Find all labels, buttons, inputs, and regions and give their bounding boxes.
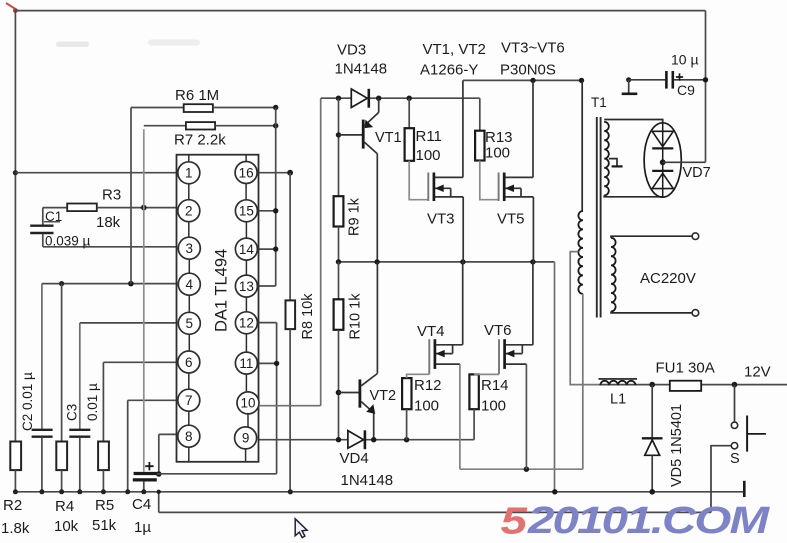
red scribble mark top-left (6, 3, 17, 10)
capacitor C3 (79, 323, 81, 429)
IC pin circles (178, 162, 259, 449)
svg-text:12V: 12V (744, 364, 771, 381)
resistor R13 (479, 98, 481, 131)
diode VD4 1N4148 (348, 431, 364, 449)
svg-text:T1: T1 (591, 95, 607, 110)
svg-text:1.8k: 1.8k (1, 520, 30, 537)
diode VD5 1N5401 (651, 385, 653, 438)
svg-text:6: 6 (185, 355, 193, 370)
svg-text:VT3: VT3 (427, 211, 455, 228)
svg-text:VT3~VT6: VT3~VT6 (501, 40, 565, 57)
svg-text:10 µ: 10 µ (671, 52, 699, 68)
svg-text:R14: R14 (481, 377, 509, 394)
svg-text:100: 100 (414, 398, 439, 415)
wire pin1 (15, 172, 178, 174)
svg-text:7: 7 (185, 393, 193, 408)
svg-text:VT6: VT6 (484, 322, 512, 339)
pin 15 (235, 200, 257, 222)
svg-text:C2 0.01 µ: C2 0.01 µ (20, 372, 35, 431)
svg-text:DA1 TL494: DA1 TL494 (213, 249, 231, 332)
svg-text:3: 3 (186, 241, 194, 256)
wire R12 to VT4 gate (407, 374, 430, 378)
battery negative terminal bar (743, 481, 746, 497)
faint smudges (56, 42, 89, 48)
svg-text:R10 1k: R10 1k (348, 293, 364, 340)
diode VD3 1N4148 (351, 89, 367, 108)
svg-text:C3: C3 (65, 404, 80, 421)
switch S (734, 385, 736, 422)
svg-text:R2: R2 (3, 497, 22, 514)
pin 7 (178, 389, 200, 411)
wire T1 center tap to L1 (570, 252, 600, 385)
watermark 520101.COM (501, 499, 771, 542)
wire pin3 from C1 (43, 246, 179, 248)
node AC220V terminal bottom (692, 310, 699, 317)
T1 primary winding (left, center-tapped) (581, 80, 583, 211)
node switch branch junction (732, 382, 738, 388)
wire R11 to VT3 gate (409, 161, 428, 200)
node AC220V terminal top (692, 233, 699, 240)
wire ground jog to bottom rail (158, 492, 160, 513)
node R9 top junction (336, 96, 341, 101)
svg-text:12: 12 (239, 316, 254, 331)
svg-text:R12: R12 (414, 377, 442, 394)
wire pin8 (159, 433, 178, 435)
svg-text:C1: C1 (45, 209, 62, 224)
wire T1 primary bottom lead (582, 294, 584, 469)
svg-text:4: 4 (186, 277, 194, 292)
wire bottom rail y=512.4 (159, 511, 711, 513)
pin 4 (178, 273, 200, 295)
node pin1 junction on left border (13, 170, 18, 175)
svg-text:2: 2 (185, 204, 193, 219)
wire pin12 to C4+ vertical (257, 322, 276, 324)
svg-text:1N4148: 1N4148 (335, 61, 388, 78)
wire VD7 center to top-rail vertical (663, 161, 706, 163)
T1 secondary winding AC220V (611, 238, 616, 312)
svg-text:VT4: VT4 (417, 323, 445, 340)
pin 3 (178, 237, 200, 259)
wire VD3 gate rail y=98.2 (321, 97, 352, 99)
pin 5 (178, 312, 200, 334)
resistor R5 (102, 362, 104, 441)
svg-text:11: 11 (239, 356, 253, 371)
svg-text:VD5 1N5401: VD5 1N5401 (669, 404, 685, 487)
wire ground bus (15, 491, 744, 493)
wire pin5 (80, 322, 178, 324)
pin 8 (178, 425, 200, 447)
resistor R4 (61, 284, 63, 442)
svg-text:1: 1 (185, 166, 193, 181)
node VD5 top junction (649, 382, 655, 388)
op-amp/IC DA1 TL494 box (177, 155, 259, 462)
svg-text:R7 2.2k: R7 2.2k (174, 132, 226, 149)
svg-text:R3: R3 (102, 187, 121, 204)
transistor VT5 (MOSFET) (498, 173, 500, 202)
svg-text:1N4148: 1N4148 (341, 472, 394, 489)
svg-text:VT1, VT2: VT1, VT2 (423, 41, 486, 58)
wire top rail (pin1 net to C9/VD7) (15, 10, 705, 12)
pin 16 (235, 162, 257, 184)
svg-text:100: 100 (416, 147, 441, 164)
svg-text:C4: C4 (132, 496, 151, 513)
svg-text:VT5: VT5 (497, 211, 525, 228)
wire left border vertical x=15.4 (14, 11, 16, 442)
capacitor C4 polarized (143, 129, 145, 472)
svg-text:R13: R13 (485, 129, 513, 146)
node R10/VT2-base on pin9 rail (336, 437, 341, 442)
wire R13 to VT5 gate (480, 161, 499, 200)
svg-text:5: 5 (501, 500, 529, 542)
pin 6 (178, 351, 200, 373)
svg-text:9: 9 (242, 431, 250, 446)
node VT2 emitter junction (371, 437, 376, 442)
svg-text:10: 10 (240, 396, 255, 411)
svg-text:S: S (730, 451, 740, 467)
capacitor C2 (41, 284, 43, 429)
wire pin9 rail (VD4 anode rail) (257, 439, 474, 441)
svg-text:R5: R5 (95, 497, 114, 514)
node VT1 emitter junction (376, 96, 381, 101)
transistor VT1 (PNP) (339, 134, 363, 136)
T1 feedback winding tap (609, 159, 617, 166)
wire ground rail drop x=554.5 (554, 262, 556, 492)
svg-text:1µ: 1µ (134, 519, 151, 536)
diode pair VD7 (644, 123, 681, 197)
resistor R7 (144, 125, 186, 127)
resistor R9 (334, 196, 344, 226)
node C4 plus junction (156, 471, 162, 477)
pin 11 (235, 352, 257, 374)
wire R9/VT1-base vertical (338, 98, 340, 196)
pin 13 (235, 275, 257, 297)
svg-text:18k: 18k (96, 214, 121, 231)
svg-text:R8 10k: R8 10k (300, 293, 316, 340)
svg-text:5: 5 (186, 316, 194, 331)
node R7 junction on pin2 wire (141, 205, 147, 211)
node VT1 base junction (336, 132, 341, 137)
svg-text:20101.COM: 20101.COM (527, 499, 770, 541)
resistor R6 (131, 107, 184, 109)
resistor R8 (289, 173, 291, 301)
wire right vertical x=705.5 (705, 11, 707, 163)
transistor VT4 (MOSFET, flipped) (428, 339, 430, 374)
transistor VT6 (MOSFET, flipped) (498, 339, 500, 374)
fuse FU1 30A (670, 381, 701, 391)
transformer T1 core (596, 117, 598, 318)
resistor R2 (10, 442, 21, 471)
wire pin13 (257, 285, 275, 287)
svg-text:VT2: VT2 (370, 388, 397, 404)
svg-text:100: 100 (485, 145, 510, 162)
wire pin7 to ground (128, 399, 178, 401)
svg-text:L1: L1 (610, 392, 626, 408)
wire pin14 (257, 248, 275, 250)
svg-text:R4: R4 (55, 498, 74, 515)
resistor R14 (469, 374, 478, 409)
node R6 right junction (273, 105, 278, 110)
svg-text:A1266-Y: A1266-Y (420, 62, 478, 79)
wire R14 to VT6 gate (474, 373, 499, 375)
svg-text:R9 1k: R9 1k (347, 197, 363, 236)
svg-text:C9: C9 (677, 82, 695, 98)
node R6 bottom junction (128, 281, 134, 287)
pin 2 (178, 200, 200, 222)
svg-text:FU1 30A: FU1 30A (656, 360, 715, 377)
capacitor C1 (42, 208, 44, 225)
node R12 bottom junction (404, 437, 409, 442)
IC inter-pin connector stubs (189, 155, 248, 462)
pin 12 (235, 312, 257, 334)
svg-text:VT1: VT1 (375, 130, 402, 146)
svg-text:R6 1M: R6 1M (175, 87, 219, 104)
svg-text:8: 8 (185, 429, 193, 444)
pin 14 (235, 238, 257, 260)
wire pin10 to VD3 anode riser (260, 405, 321, 407)
wire C4+ to pin12 vertical (157, 473, 277, 475)
capacitor C9 10u (626, 77, 631, 82)
svg-text:VD3: VD3 (337, 42, 366, 59)
svg-text:14: 14 (239, 242, 255, 257)
resistor R11 (408, 98, 410, 128)
svg-text:0.01 µ: 0.01 µ (85, 383, 100, 421)
pin 10 (237, 392, 259, 414)
svg-text:VD4: VD4 (340, 450, 369, 467)
node R4 top junction (59, 281, 64, 286)
transistor VT2 (NPN) (339, 392, 359, 394)
svg-text:0.039 µ: 0.039 µ (45, 234, 91, 249)
svg-text:13: 13 (239, 279, 254, 294)
svg-text:15: 15 (239, 204, 254, 219)
wire vref vertical x=275.7 (pins 13,14,15) (275, 108, 277, 287)
svg-text:16: 16 (239, 165, 254, 180)
wire drain rail y=80.4 (VT3/VT5 to T1 primary top) (463, 79, 582, 81)
node VT2 base junction (336, 390, 342, 396)
svg-text:R11: R11 (416, 128, 442, 145)
svg-text:10k: 10k (54, 518, 79, 535)
ground stub at C9 (628, 80, 630, 93)
svg-text:51k: 51k (92, 517, 117, 534)
svg-text:100: 100 (481, 398, 506, 415)
wire sources/ground rail y=261.9 (339, 261, 555, 263)
wire pin11 (257, 362, 276, 364)
pin 9 (235, 427, 257, 449)
resistor R10 (338, 262, 340, 299)
wire pin15 (257, 210, 276, 212)
T1 feedback winding (top right) (604, 120, 663, 124)
wire VT4/VT6 drain rail y=469.2 to T1 primary bottom (460, 468, 583, 470)
mouse cursor (295, 519, 307, 538)
pin 1 (178, 162, 200, 184)
wire pin4 (42, 283, 179, 285)
wire pin6 (103, 361, 177, 363)
svg-text:AC220V: AC220V (640, 270, 696, 287)
svg-text:VD7: VD7 (683, 165, 711, 181)
inductor L1 (600, 384, 787, 386)
svg-text:P30N0S: P30N0S (500, 62, 556, 79)
node R11 top junction (407, 96, 412, 101)
transistor VT3 (MOSFET) (427, 173, 429, 202)
resistor R3 (43, 207, 67, 209)
resistor R12 (402, 378, 411, 409)
node R7 right junction (273, 123, 278, 128)
wire pin16 to R8 (257, 172, 290, 174)
